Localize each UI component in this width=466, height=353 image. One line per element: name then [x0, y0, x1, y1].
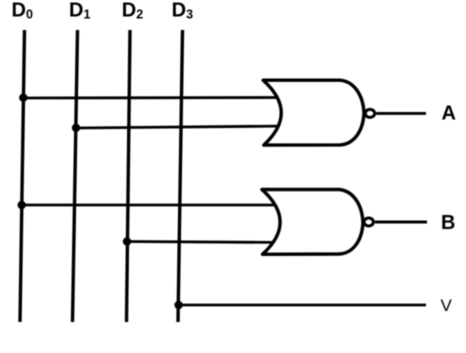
junction D3 / V [174, 301, 182, 309]
svg-text:B: B [441, 212, 455, 234]
label D1 [69, 0, 91, 22]
svg-text:2: 2 [136, 8, 143, 22]
label D2 [122, 0, 144, 22]
junction D0 / U2 [18, 201, 26, 209]
svg-text:D: D [172, 0, 186, 22]
output bubble U2 [364, 218, 373, 226]
wire D2 to U2 bottom input [127, 242, 290, 243]
svg-text:D: D [12, 0, 26, 22]
svg-text:A: A [442, 102, 456, 124]
label D3 [172, 0, 194, 22]
wire input line D0 [20, 30, 25, 322]
svg-text:V: V [441, 296, 453, 315]
svg-text:1: 1 [84, 8, 91, 22]
junction D2 / U2 [123, 237, 131, 245]
junction D1 / U1 [72, 124, 80, 132]
NOR gate U2 body [262, 190, 363, 255]
svg-text:D: D [69, 0, 83, 22]
wire D1 to U1 bottom input [76, 126, 290, 128]
wire U2 output to B [375, 221, 427, 224]
junction D0 / U1 [19, 94, 27, 102]
wire input line D3 [178, 30, 183, 322]
label D0 [12, 0, 34, 22]
NOR gate U1 body [263, 80, 364, 145]
svg-text:3: 3 [186, 8, 193, 22]
svg-text:D: D [122, 0, 136, 22]
wire input line D2 [127, 30, 131, 322]
wire input line D1 [73, 30, 78, 322]
wire D3 to V output [179, 304, 426, 307]
svg-text:0: 0 [26, 8, 33, 22]
wire D0 to U1 top input [24, 96, 291, 99]
wire U1 output to A [376, 112, 426, 115]
wire D0 to U2 top input [22, 204, 290, 207]
output bubble U1 [365, 109, 374, 117]
